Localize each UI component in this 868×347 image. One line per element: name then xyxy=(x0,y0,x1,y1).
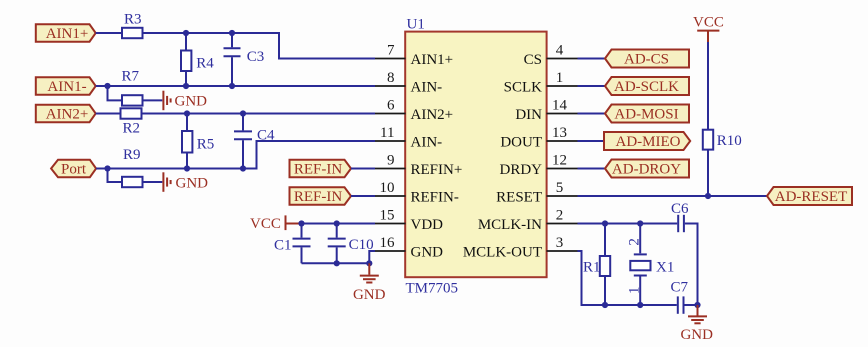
pin 1 SCLK xyxy=(504,70,578,96)
svg-text:DIN: DIN xyxy=(515,107,542,123)
power VCC (left, sideways) xyxy=(250,215,300,231)
svg-text:13: 13 xyxy=(552,125,567,141)
node X1 top xyxy=(637,220,643,226)
wire Port row to pin 11 xyxy=(96,141,375,169)
node C10 bottom xyxy=(334,260,340,266)
wire R2 to pin 6 xyxy=(142,113,376,115)
svg-text:VDD: VDD xyxy=(411,217,444,233)
pin 13 DOUT xyxy=(500,125,577,151)
port AD-MIEO xyxy=(604,132,690,150)
svg-text:AIN1+: AIN1+ xyxy=(411,52,454,68)
node R4 top xyxy=(183,30,189,36)
svg-text:3: 3 xyxy=(556,235,564,251)
resistor R9 xyxy=(122,147,143,187)
port AIN1+ xyxy=(36,24,96,42)
wire AIN2+ port to R2 xyxy=(96,113,121,115)
svg-text:2: 2 xyxy=(627,238,643,246)
pin 2 MCLK-IN xyxy=(478,208,578,234)
svg-text:R1: R1 xyxy=(583,259,601,275)
node C3 bottom xyxy=(229,83,235,89)
wire C7 to ground node xyxy=(685,304,698,306)
resistor R2 xyxy=(121,108,142,136)
svg-text:R7: R7 xyxy=(122,69,140,85)
svg-text:MCLK-OUT: MCLK-OUT xyxy=(463,245,542,261)
port AD-SCLK xyxy=(605,77,689,95)
wire AIN1- row to pin 8 xyxy=(96,85,375,87)
pin 5 RESET xyxy=(496,180,577,206)
svg-text:12: 12 xyxy=(552,153,567,169)
capacitor C3 xyxy=(224,33,265,86)
svg-text:16: 16 xyxy=(380,235,396,251)
svg-text:R9: R9 xyxy=(123,147,141,163)
wire pin 5 RESET to AD-RESET xyxy=(578,195,768,197)
power VCC (top right) xyxy=(693,15,724,43)
resistor R3 xyxy=(122,12,143,39)
svg-text:14: 14 xyxy=(552,98,568,114)
svg-text:REFIN-: REFIN- xyxy=(411,190,459,206)
pin 10 REFIN- xyxy=(375,180,459,206)
svg-text:10: 10 xyxy=(380,180,395,196)
svg-text:R2: R2 xyxy=(123,120,141,136)
wire R5 top xyxy=(186,114,188,132)
wire pin 13 to AD-MIEO xyxy=(578,140,605,142)
ground below C1/C10 rail xyxy=(353,263,386,303)
port AIN2+ xyxy=(36,105,96,123)
svg-text:Port: Port xyxy=(61,162,87,178)
node Port branch xyxy=(104,165,110,171)
pin 15 VDD xyxy=(375,208,443,234)
svg-text:R5: R5 xyxy=(197,136,215,152)
svg-text:GND: GND xyxy=(680,327,713,343)
wire R7 to ground xyxy=(143,99,163,101)
ground (sideways) after R9 xyxy=(163,172,208,192)
svg-text:AD-MOSI: AD-MOSI xyxy=(614,107,678,123)
pin 7 AIN1+ xyxy=(375,43,453,69)
svg-text:AIN-: AIN- xyxy=(411,80,443,96)
svg-text:R4: R4 xyxy=(196,55,214,71)
svg-text:AIN1+: AIN1+ xyxy=(46,26,89,42)
svg-text:1: 1 xyxy=(627,287,643,295)
node R1 top xyxy=(602,220,608,226)
wire R5 bottom xyxy=(186,153,188,169)
pin 9 REFIN+ xyxy=(375,153,462,179)
wire R3 to pin 7 xyxy=(143,33,376,59)
wire R4 bottom xyxy=(185,71,187,86)
wire pin 4 to AD-CS xyxy=(578,58,606,60)
svg-text:AIN-: AIN- xyxy=(411,135,443,151)
svg-text:GND: GND xyxy=(353,287,386,303)
resistor R5 xyxy=(182,131,214,153)
svg-text:RESET: RESET xyxy=(496,190,542,206)
svg-text:DRDY: DRDY xyxy=(499,162,542,178)
ground (sideways) after R7 xyxy=(163,91,207,111)
node C1 top xyxy=(298,220,304,226)
wire AIN1+ port to R3 xyxy=(96,32,122,34)
svg-text:CS: CS xyxy=(524,52,542,68)
port AD-CS xyxy=(605,50,689,68)
wire pin 16 to ground rail xyxy=(369,251,375,263)
wire VCC to R10 xyxy=(707,42,709,130)
node ground bottom right xyxy=(694,302,700,308)
wire pin 14 to AD-MOSI xyxy=(578,113,606,115)
svg-text:C3: C3 xyxy=(247,49,265,65)
pin 3 MCLK-OUT xyxy=(463,235,578,261)
node RESET / R10 xyxy=(705,193,711,199)
svg-text:2: 2 xyxy=(556,208,564,224)
pin 6 AIN2+ xyxy=(375,98,453,124)
svg-text:1: 1 xyxy=(556,70,564,86)
capacitor C4 xyxy=(234,114,275,169)
node R5 top xyxy=(184,110,190,116)
wire pin 12 to AD-DROY xyxy=(578,168,606,170)
svg-text:DOUT: DOUT xyxy=(500,135,542,151)
resistor R7 xyxy=(122,69,143,106)
svg-text:VCC: VCC xyxy=(250,216,281,232)
wire R9 to ground xyxy=(143,181,163,183)
wire branch down to R9 xyxy=(108,169,123,183)
svg-text:5: 5 xyxy=(556,180,564,196)
pin 16 GND xyxy=(375,235,443,261)
node AIN1- branch xyxy=(104,83,110,89)
pin 11 AIN- xyxy=(375,125,442,151)
svg-text:AD-SCLK: AD-SCLK xyxy=(614,79,679,95)
svg-text:4: 4 xyxy=(556,43,564,59)
resistor R1 xyxy=(583,256,610,276)
port AIN1- xyxy=(36,77,96,95)
wire branch down to R7 xyxy=(108,86,123,100)
wire R10 to RESET net xyxy=(707,150,709,196)
svg-text:SCLK: SCLK xyxy=(504,80,543,96)
pin 4 CS xyxy=(524,43,578,69)
ground bottom right xyxy=(680,305,713,343)
svg-text:AD-DROY: AD-DROY xyxy=(612,162,681,178)
svg-text:REF-IN: REF-IN xyxy=(294,189,343,205)
wire REF-IN upper to pin 9 xyxy=(351,168,375,170)
node R1 bottom xyxy=(602,302,608,308)
wire C6 to right riser xyxy=(685,224,698,306)
svg-text:C1: C1 xyxy=(274,238,292,254)
crystal X1 xyxy=(627,224,675,306)
wire VCC rail to pin 15 xyxy=(300,223,375,225)
svg-text:GND: GND xyxy=(411,245,444,261)
port AD-RESET xyxy=(767,187,852,205)
wire decoupling rail xyxy=(302,262,370,264)
node ground rail xyxy=(366,260,372,266)
capacitor C1 xyxy=(274,224,311,264)
port REF-IN (lower) xyxy=(290,187,352,205)
svg-text:MCLK-IN: MCLK-IN xyxy=(478,217,542,233)
wire pin 3 MCLK-OUT down and along bottom xyxy=(578,251,677,305)
resistor R10 xyxy=(703,130,742,150)
wire pin 1 to AD-SCLK xyxy=(578,85,606,87)
resistor R4 xyxy=(181,51,214,72)
pin 8 AIN- xyxy=(375,70,442,96)
svg-text:AD-MIEO: AD-MIEO xyxy=(616,134,681,150)
svg-text:X1: X1 xyxy=(656,260,674,276)
capacitor C7 xyxy=(671,280,689,314)
svg-text:R10: R10 xyxy=(717,133,742,149)
svg-text:REFIN+: REFIN+ xyxy=(411,162,463,178)
svg-text:C7: C7 xyxy=(671,280,689,296)
svg-text:11: 11 xyxy=(380,125,394,141)
svg-text:GND: GND xyxy=(175,93,208,109)
wire pin 2 MCLK-IN row xyxy=(578,223,678,225)
svg-text:AD-CS: AD-CS xyxy=(624,52,669,68)
capacitor C6 xyxy=(671,201,689,232)
svg-text:8: 8 xyxy=(387,70,395,86)
svg-text:VCC: VCC xyxy=(693,15,724,31)
node R4 bottom xyxy=(183,83,189,89)
node X1 bottom xyxy=(637,302,643,308)
node C4 top xyxy=(240,110,246,116)
svg-text:6: 6 xyxy=(387,98,395,114)
node C3 top xyxy=(229,30,235,36)
port AD-DROY xyxy=(605,160,689,178)
svg-text:7: 7 xyxy=(387,43,395,59)
svg-text:15: 15 xyxy=(380,208,395,224)
port AD-MOSI xyxy=(605,105,689,123)
svg-text:U1: U1 xyxy=(407,17,425,33)
wire R1 top xyxy=(604,224,606,257)
wire R4 top xyxy=(185,33,187,51)
port REF-IN (upper) xyxy=(290,160,352,178)
wire REF-IN lower to pin 10 xyxy=(351,195,375,197)
svg-text:AIN2+: AIN2+ xyxy=(46,107,89,123)
pin 12 DRDY xyxy=(499,153,577,179)
pin 14 DIN xyxy=(515,98,577,124)
capacitor C10 xyxy=(328,224,374,264)
op-amp U1 (TM7705 ADC body) xyxy=(405,32,546,278)
svg-text:AD-RESET: AD-RESET xyxy=(775,189,848,205)
svg-text:TM7705: TM7705 xyxy=(406,280,459,296)
svg-text:GND: GND xyxy=(176,175,209,191)
port Port (bidirectional) xyxy=(51,160,96,178)
node C10 top xyxy=(334,220,340,226)
svg-text:AIN2+: AIN2+ xyxy=(411,107,454,123)
svg-text:C6: C6 xyxy=(671,201,689,217)
svg-text:REF-IN: REF-IN xyxy=(294,162,343,178)
svg-text:R3: R3 xyxy=(124,12,142,28)
node C4 bottom xyxy=(240,165,246,171)
svg-text:AIN1-: AIN1- xyxy=(47,79,86,95)
wire R1 bottom xyxy=(604,276,606,305)
node R5 bottom xyxy=(184,165,190,171)
svg-text:9: 9 xyxy=(387,153,395,169)
